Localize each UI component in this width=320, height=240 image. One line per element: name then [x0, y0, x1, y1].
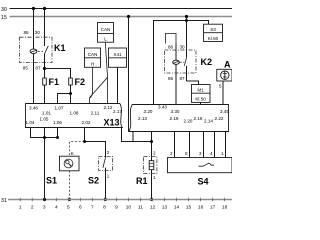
svg-text:K2: K2: [201, 57, 213, 67]
svg-text:1.06: 1.06: [53, 120, 62, 125]
svg-text:30: 30: [1, 7, 7, 13]
svg-text:2.12: 2.12: [104, 105, 113, 110]
wire S4 pin 4: [214, 132, 216, 158]
svg-text:85: 85: [23, 66, 29, 71]
connector CAN H: [85, 48, 101, 67]
svg-text:2.13: 2.13: [138, 116, 147, 121]
wire R1 to ground rail: [151, 170, 153, 200]
wire mechanical link S1 to ground rail: [69, 171, 71, 200]
svg-text:2.20: 2.20: [184, 118, 193, 123]
wire horizontal feed K2 area: [154, 21, 209, 105]
svg-text:3: 3: [199, 151, 202, 156]
svg-text:Kl.50: Kl.50: [208, 36, 219, 41]
svg-text:1: 1: [19, 204, 22, 210]
wire S4 pin 5: [189, 132, 191, 158]
wire from K1 87 to F2: [45, 69, 71, 78]
svg-text:X41: X41: [113, 52, 122, 57]
svg-text:15: 15: [186, 204, 192, 210]
svg-text:8: 8: [103, 204, 106, 210]
bus 30: [1, 7, 232, 13]
svg-text:R1: R1: [136, 176, 148, 186]
wire S4 pin 2: [174, 132, 176, 158]
svg-text:17: 17: [210, 204, 216, 210]
svg-text:2: 2: [31, 204, 34, 210]
wire pin 2.13 down to R1: [151, 132, 153, 161]
svg-text:1.04: 1.04: [26, 120, 35, 125]
switch S3 (terminal 50): [204, 24, 223, 41]
wire from bus 15 junction down to feed line: [186, 17, 188, 21]
svg-text:H: H: [91, 62, 94, 67]
svg-text:S2: S2: [88, 176, 99, 186]
wire from bus 15 through connector gap: [128, 17, 130, 132]
fuse F2: [69, 77, 85, 104]
svg-text:1: 1: [107, 174, 110, 179]
svg-text:5: 5: [67, 204, 70, 210]
connector X41: [109, 48, 127, 67]
bus 31: [1, 198, 232, 204]
wire mechanical link to ignition key S1: [70, 142, 85, 157]
svg-text:K1: K1: [54, 43, 66, 53]
svg-text:3.45: 3.45: [220, 109, 229, 114]
connector X13 right half: [129, 104, 230, 131]
node junction on bus 30 at K1 coil wire: [32, 7, 35, 10]
wire X41 to pin 2.17: [117, 67, 119, 103]
switch S4: [168, 151, 233, 186]
node junction 87 of K1: [43, 67, 46, 70]
svg-text:2.02: 2.02: [82, 120, 91, 125]
svg-text:3: 3: [43, 204, 46, 210]
wire branch from F2 to pin 1.07: [58, 94, 71, 104]
svg-text:2.19: 2.19: [170, 116, 179, 121]
svg-text:12: 12: [150, 204, 156, 210]
svg-text:30: 30: [35, 30, 41, 35]
svg-text:18: 18: [222, 204, 228, 210]
wire CAN L to pin 2.12: [105, 42, 107, 103]
svg-text:3.46: 3.46: [29, 106, 38, 111]
node junction S1 on bus 31: [68, 198, 71, 201]
wire M1 to connector pin: [200, 102, 202, 104]
svg-text:S1: S1: [46, 176, 57, 186]
wire K1 contact terminal 30 from bus 30: [44, 9, 46, 47]
svg-text:1.05: 1.05: [40, 117, 49, 122]
svg-text:2: 2: [107, 150, 110, 155]
wire ground bus under X13 pins 1.04 1.05 1.06: [31, 128, 58, 138]
svg-text:16: 16: [198, 204, 204, 210]
svg-text:1: 1: [221, 151, 224, 156]
node junction on ground bus: [43, 136, 46, 139]
svg-text:1.07: 1.07: [55, 106, 64, 111]
svg-text:M1: M1: [197, 87, 204, 92]
svg-text:Kl.50: Kl.50: [195, 97, 206, 102]
node junction below F2: [69, 92, 72, 95]
battery A: [217, 59, 232, 81]
node junction on bus 15 feeding K2 / S3: [185, 15, 188, 18]
svg-text:2.22: 2.22: [215, 116, 224, 121]
node junction key contact: [83, 140, 86, 143]
node junction on bus 15 feeding connector gap wire: [127, 15, 130, 18]
svg-text:1.08: 1.08: [70, 111, 79, 116]
svg-text:86: 86: [24, 30, 30, 35]
svg-text:10: 10: [126, 204, 132, 210]
wire K2 87 to starter M1: [187, 81, 199, 85]
svg-text:2: 2: [153, 151, 156, 156]
switch S1 ignition key: [46, 151, 79, 186]
svg-text:S4: S4: [198, 177, 209, 187]
svg-text:6: 6: [79, 204, 82, 210]
node junction S2 on bus 31: [104, 198, 107, 201]
svg-text:87: 87: [180, 76, 186, 81]
svg-text:CAN: CAN: [101, 27, 111, 32]
svg-text:F2: F2: [75, 77, 86, 87]
relay K2: [165, 21, 213, 105]
wire CAN H to pin 2.11: [90, 67, 93, 103]
svg-text:14: 14: [174, 204, 180, 210]
wire S4 pin 1: [225, 132, 227, 158]
svg-text:2: 2: [170, 151, 173, 156]
svg-text:13: 13: [162, 204, 168, 210]
svg-text:2.11: 2.11: [91, 111, 100, 116]
svg-text:86: 86: [168, 44, 174, 49]
svg-text:4: 4: [210, 151, 213, 156]
resistor R1: [136, 151, 157, 186]
svg-text:1: 1: [153, 175, 156, 180]
svg-text:X13: X13: [104, 118, 120, 128]
starter M1 terminal 50: [192, 85, 211, 103]
svg-text:86: 86: [168, 76, 174, 81]
svg-text:3.30: 3.30: [171, 109, 180, 114]
svg-text:5: 5: [219, 83, 222, 88]
wire pin 2.02 to S2: [85, 128, 106, 158]
bus 15: [1, 15, 232, 21]
svg-text:7: 7: [91, 204, 94, 210]
switch S2: [88, 150, 113, 199]
node junction R1 on bus 31: [150, 198, 153, 201]
node junction on feed line: [185, 19, 188, 22]
wire twisted pair symbol: [90, 77, 108, 97]
svg-text:3.20: 3.20: [144, 109, 153, 114]
svg-text:30: 30: [180, 44, 186, 49]
svg-text:3.43: 3.43: [158, 104, 167, 109]
svg-text:F1: F1: [49, 77, 60, 87]
svg-text:2.16: 2.16: [194, 116, 203, 121]
fuse F1: [43, 77, 59, 87]
svg-text:A: A: [224, 59, 231, 69]
node junction on ground bus right: [56, 136, 59, 139]
relay K1: [20, 30, 66, 103]
connector CAN L: [98, 23, 114, 43]
wire right connector pin down to R1 feed: [132, 132, 134, 142]
svg-text:2.14: 2.14: [204, 118, 213, 123]
svg-text:1.01: 1.01: [42, 111, 51, 116]
wire battery pin 5 to connector pin 3.45: [219, 81, 223, 105]
wire K1 coil terminal 86 from bus 30: [33, 9, 35, 49]
svg-text:11: 11: [138, 204, 143, 210]
connector X13 left half: [26, 104, 123, 128]
svg-text:S3: S3: [210, 27, 216, 32]
wire S4 pin 3: [203, 132, 205, 158]
svg-text:CAN: CAN: [88, 52, 98, 57]
wire pin 1.05 to bus 31: [44, 128, 46, 200]
current track grid ticks and numbers: [20, 198, 224, 202]
node junction on bus 30 at K1 contact wire: [43, 7, 46, 10]
node junction R1 feed: [150, 140, 153, 143]
svg-text:31: 31: [1, 198, 7, 204]
svg-text:4: 4: [55, 204, 58, 210]
svg-text:L: L: [104, 36, 107, 41]
svg-text:15: 15: [1, 15, 7, 21]
node junction X13 ground on bus 31: [43, 198, 46, 201]
wire X13 pin to R1 node: [122, 128, 152, 142]
svg-text:5: 5: [185, 151, 188, 156]
svg-text:9: 9: [115, 204, 118, 210]
svg-text:87: 87: [35, 66, 41, 71]
svg-text:2.17: 2.17: [113, 109, 122, 114]
